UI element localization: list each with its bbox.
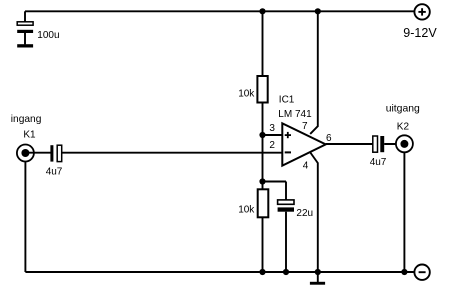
terminal -: supply negative <box>414 265 429 280</box>
svg-text:ingang: ingang <box>11 114 42 125</box>
node: junction R1 / pin 3 <box>259 132 265 138</box>
wire: node to op-amp pin 3 <box>263 134 283 136</box>
svg-text:7: 7 <box>302 121 308 132</box>
svg-text:4u7: 4u7 <box>370 157 387 168</box>
terminal +: supply positive <box>414 4 429 19</box>
capacitor C1 100u <box>17 22 33 45</box>
node: junction bias network <box>259 178 265 184</box>
op-amp minus input marker <box>285 151 291 153</box>
svg-text:100u: 100u <box>37 30 59 41</box>
svg-text:10k: 10k <box>238 204 255 215</box>
connector K1 <box>17 145 34 162</box>
wire: C3 top lead <box>285 182 287 201</box>
connector K2 <box>396 135 413 152</box>
svg-text:K1: K1 <box>23 130 36 141</box>
svg-text:10k: 10k <box>238 89 255 100</box>
node: junction top rail / R1 <box>259 8 265 14</box>
wire: R2 to ground rail <box>262 217 264 272</box>
node: junction pin4 ground <box>315 269 321 275</box>
svg-text:22u: 22u <box>296 208 313 219</box>
wire: pin 6 output to C4 <box>326 143 373 145</box>
svg-text:uitgang: uitgang <box>386 104 420 115</box>
wire: pin3 node down to bias node <box>262 135 264 182</box>
wire: top rail to R1 <box>262 11 264 76</box>
node: junction R2 / ground rail <box>259 269 265 275</box>
wire: C4 to K2 center <box>384 143 404 145</box>
wire: R1 to node pin 3 <box>262 103 264 136</box>
wire: C3 to ground rail <box>285 212 287 272</box>
wire: C1 lead from top rail <box>24 11 26 22</box>
resistor R1 10k <box>257 76 267 103</box>
node: junction K2 shield / ground rail <box>401 269 407 275</box>
ground symbol main <box>310 272 325 285</box>
svg-text:IC1: IC1 <box>279 95 295 106</box>
svg-text:9-12V: 9-12V <box>403 26 437 40</box>
capacitor C2 4u7 input <box>50 145 61 161</box>
svg-text:6: 6 <box>326 133 332 144</box>
svg-text:4: 4 <box>303 160 309 171</box>
ground under C1 <box>17 44 33 47</box>
wire: pin 7 to top rail <box>310 11 318 134</box>
node: junction top rail / pin 7 <box>315 8 321 14</box>
svg-text:3: 3 <box>269 123 275 134</box>
svg-text:2: 2 <box>269 140 275 151</box>
wire: bias node to R2 <box>262 182 264 190</box>
wire: K2 shield down <box>403 152 405 272</box>
op-amp plus input marker <box>285 132 291 138</box>
capacitor C4 4u7 output <box>373 136 384 152</box>
svg-text:LM 741: LM 741 <box>278 109 312 120</box>
wire: pin 4 to ground rail <box>310 153 318 273</box>
wire: K1 shield down <box>24 162 26 273</box>
wire: V+ top rail <box>25 10 415 12</box>
svg-text:4u7: 4u7 <box>46 166 63 177</box>
wire: K1 center to C2 <box>25 152 50 154</box>
wire: bias node to C3 branch <box>263 181 287 183</box>
capacitor C3 22u <box>278 200 294 212</box>
op-amp U1 LM741 triangle <box>282 123 325 165</box>
wire: ground bottom rail <box>25 271 413 273</box>
wire: C2 to op-amp pin 2 <box>62 152 283 154</box>
svg-text:K2: K2 <box>397 121 410 132</box>
node: junction C3 / ground rail <box>283 269 289 275</box>
resistor R2 10k <box>258 189 269 217</box>
